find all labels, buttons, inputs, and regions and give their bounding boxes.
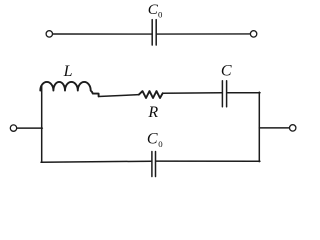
- svg-text:C: C: [147, 131, 158, 148]
- svg-text:0: 0: [158, 9, 163, 19]
- svg-text:R: R: [147, 104, 158, 121]
- svg-text:L: L: [63, 63, 73, 80]
- svg-text:0: 0: [158, 139, 163, 149]
- svg-text:C: C: [221, 62, 232, 79]
